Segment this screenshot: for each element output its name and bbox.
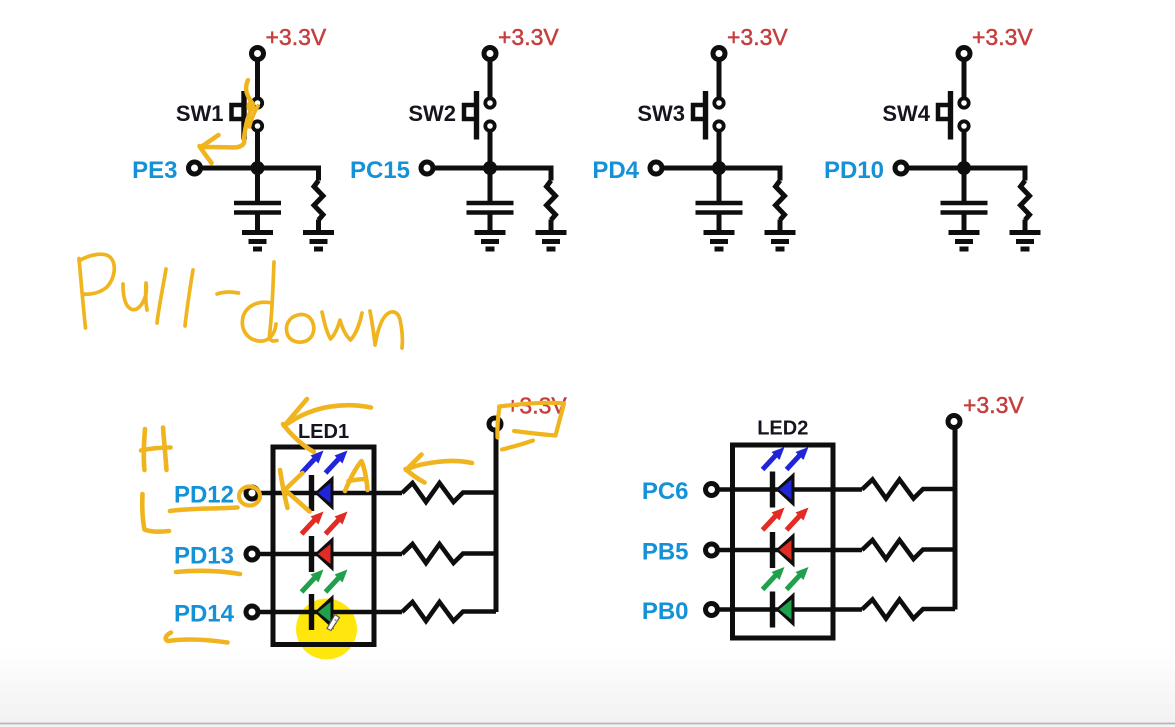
wire: SW1 pin 2 to junction node <box>255 130 260 168</box>
svg-text:PC6: PC6 <box>642 478 689 505</box>
wire: capacitor to ground (SW4) <box>962 215 967 231</box>
wire: junction to PE3 terminal <box>198 166 258 171</box>
pushbutton switch SW4 <box>938 91 969 140</box>
pushbutton switch SW2 <box>464 91 495 140</box>
annotation: yellow highlight blob on green LED of LED1 <box>296 599 357 660</box>
wire: SW2 pin 2 to junction node <box>488 130 493 168</box>
drawing-pen cursor on highlighted LED <box>327 615 340 631</box>
ground (resistor, SW1 branch) <box>303 233 334 250</box>
emission arrows (blue LED, LED1) <box>302 451 348 474</box>
wire: junction to capacitor (SW4) <box>962 168 967 201</box>
svg-text:SW2: SW2 <box>408 101 456 126</box>
svg-text:LED2: LED2 <box>757 418 808 440</box>
annotation: handwritten word Pull-down <box>79 254 402 348</box>
emission arrows (green LED, LED1) <box>302 570 348 593</box>
wire: SW4 pin 2 to junction node <box>962 130 967 168</box>
wire: +3.3V node to SW2 pin 1 <box>488 54 493 99</box>
wire: PB0 terminal through LED2 to resistor <box>718 607 863 612</box>
wire: capacitor to ground (SW2) <box>488 215 493 231</box>
annotation: handwritten K (cathode) <box>280 470 310 512</box>
package outline box LED2 <box>733 445 834 638</box>
wire: junction to PC15 terminal <box>430 166 490 171</box>
terminal PC6 <box>706 484 718 496</box>
annotation: pen arrow left of LED1 resistor row <box>406 455 473 483</box>
capacitor (debounce, SW3) <box>696 203 743 213</box>
wire: +3.3V node to SW1 pin 1 <box>255 54 260 99</box>
wire: junction to pull-down resistor (SW1 branch) <box>258 168 319 181</box>
wire: PD12 terminal through LED1 to resistor <box>258 491 402 496</box>
wire: capacitor to ground (SW1) <box>255 215 260 231</box>
wire: junction to capacitor (SW1) <box>255 168 260 201</box>
annotation: handwritten A (anode) <box>345 461 368 491</box>
svg-text:+3.3V: +3.3V <box>498 24 559 50</box>
wire: junction to pull-down resistor (SW4 branch) <box>964 168 1025 181</box>
package outline box LED1 <box>273 447 374 645</box>
resistor (pull-down, SW4 branch) <box>1021 181 1030 220</box>
resistor (pull-down, SW1 branch) <box>314 181 323 220</box>
resistor (PD12 row) and wire to +3.3V bus <box>402 483 496 502</box>
svg-text:SW1: SW1 <box>176 101 224 126</box>
wire: junction to pull-down resistor (SW2 branch) <box>490 168 551 181</box>
blue LED (LED1, PD12 row) <box>312 475 334 511</box>
svg-text:SW4: SW4 <box>882 101 930 126</box>
+3.3V supply terminal node (SW3) <box>713 48 725 60</box>
green LED (LED1, PD14 row) <box>312 594 334 630</box>
+3.3V supply terminal node (LED1) <box>489 418 501 430</box>
svg-text:PE3: PE3 <box>132 157 177 184</box>
wire: PD14 terminal through LED1 to resistor <box>258 610 402 615</box>
wire: capacitor to ground (SW3) <box>717 215 722 231</box>
wire: +3.3V node to SW4 pin 1 <box>962 54 967 99</box>
annotation: pen slash through switch SW1 <box>244 80 253 138</box>
ground (resistor, SW3 branch) <box>765 233 796 250</box>
junction node (SW4) <box>957 161 971 175</box>
capacitor (debounce, SW4) <box>941 203 988 213</box>
wire: resistor to ground (SW3 branch) <box>778 220 783 232</box>
red LED (LED1, PD13 row) <box>312 536 334 572</box>
ground (capacitor, SW4) <box>949 233 980 250</box>
svg-text:PD10: PD10 <box>824 157 884 184</box>
terminal PD12 <box>246 487 258 499</box>
ground (capacitor, SW2) <box>475 233 506 250</box>
+3.3V bus wire (LED1) <box>494 424 499 612</box>
green LED (LED2, PB0 row) <box>773 592 795 628</box>
svg-text:+3.3V: +3.3V <box>972 24 1033 50</box>
bottom edge line <box>0 723 1175 725</box>
ground (resistor, SW4 branch) <box>1010 233 1041 250</box>
blue LED (LED2, PC6 row) <box>773 472 795 508</box>
emission arrows (red LED, LED2) <box>763 508 809 531</box>
emission arrows (red LED, LED1) <box>302 512 348 535</box>
wire: SW3 pin 2 to junction node <box>717 130 722 168</box>
annotation: second pen slash through SW1 <box>250 106 259 127</box>
capacitor (debounce, SW1) <box>234 203 281 213</box>
resistor (PC6 row) and wire to +3.3V bus <box>862 480 955 499</box>
annotation: underline below PD12 <box>170 508 238 512</box>
resistor (PD13 row) and wire to +3.3V bus <box>402 544 496 563</box>
wire: junction to PD4 terminal <box>659 166 719 171</box>
svg-text:PD14: PD14 <box>174 601 235 628</box>
svg-text:PB0: PB0 <box>642 598 689 625</box>
wire: resistor to ground (SW2 branch) <box>549 220 554 232</box>
svg-text:+3.3V: +3.3V <box>266 24 327 50</box>
ground (capacitor, SW1) <box>242 233 273 250</box>
wire: junction to pull-down resistor (SW3 branch) <box>719 168 780 181</box>
svg-text:PD4: PD4 <box>592 157 639 184</box>
ground (capacitor, SW3) <box>704 233 735 250</box>
terminal PB5 <box>706 544 718 556</box>
resistor (PB0 row) and wire to +3.3V bus <box>862 600 955 619</box>
annotation: pen arrow above LED1 <box>283 399 371 452</box>
svg-text:PB5: PB5 <box>642 539 689 566</box>
svg-text:SW3: SW3 <box>637 101 685 126</box>
+3.3V supply terminal node (LED2) <box>948 416 960 428</box>
junction node (SW1) <box>251 161 265 175</box>
+3.3V supply terminal node (SW4) <box>958 48 970 60</box>
resistor (PB5 row) and wire to +3.3V bus <box>862 540 955 559</box>
svg-text:LED1: LED1 <box>298 421 349 443</box>
resistor (pull-down, SW2 branch) <box>547 181 556 220</box>
junction node (SW2) <box>483 161 497 175</box>
capacitor (debounce, SW2) <box>467 203 514 213</box>
resistor (PD14 row) and wire to +3.3V bus <box>402 602 496 621</box>
wire: PC6 terminal through LED2 to resistor <box>718 487 863 492</box>
terminal PD14 <box>246 606 258 618</box>
annotation: underline below PD13 <box>176 571 240 574</box>
emission arrows (green LED, LED2) <box>763 567 809 590</box>
svg-text:PC15: PC15 <box>350 157 410 184</box>
terminal PD10 <box>895 162 907 174</box>
svg-text:PD12: PD12 <box>174 482 234 509</box>
annotation: handwritten H (high) <box>141 428 171 471</box>
wire: PB5 terminal through LED2 to resistor <box>718 548 863 553</box>
annotation: handwritten L (low) <box>142 494 169 532</box>
+3.3V bus wire (LED2) <box>953 422 958 610</box>
ground (resistor, SW2 branch) <box>536 233 567 250</box>
svg-text:PD13: PD13 <box>174 543 234 570</box>
annotation: pen ring around PD12 terminal <box>239 487 260 506</box>
pushbutton switch SW1 <box>232 91 263 140</box>
svg-text:+3.3V: +3.3V <box>727 24 788 50</box>
junction node (SW3) <box>712 161 726 175</box>
wire: junction to capacitor (SW2) <box>488 168 493 201</box>
+3.3V supply terminal node (SW2) <box>484 48 496 60</box>
red LED (LED2, PB5 row) <box>773 532 795 568</box>
wire: resistor to ground (SW4 branch) <box>1023 220 1028 232</box>
wire: PD13 terminal through LED1 to resistor <box>258 552 402 557</box>
annotation: pen scribble around LED1 +3.3V label <box>497 403 564 450</box>
resistor (pull-down, SW3 branch) <box>776 181 785 220</box>
terminal PB0 <box>706 604 718 616</box>
wire: junction to capacitor (SW3) <box>717 168 722 201</box>
+3.3V supply terminal node (SW1) <box>252 48 264 60</box>
emission arrows (blue LED, LED2) <box>763 447 809 470</box>
pushbutton switch SW3 <box>693 91 724 140</box>
svg-text:+3.3V: +3.3V <box>963 392 1024 418</box>
wire: +3.3V node to SW3 pin 1 <box>717 54 722 99</box>
terminal PD4 <box>650 162 662 174</box>
wire: resistor to ground (SW1 branch) <box>316 220 321 232</box>
wire: junction to PD10 terminal <box>904 166 964 171</box>
terminal PD13 <box>246 548 258 560</box>
annotation: underline below PD14 <box>166 633 228 643</box>
annotation: pen arrow pointing to PE3 <box>200 135 245 163</box>
terminal PE3 <box>189 162 201 174</box>
terminal PC15 <box>421 162 433 174</box>
